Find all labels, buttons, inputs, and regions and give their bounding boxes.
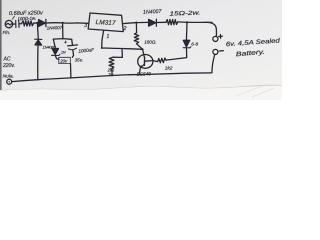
wire bottom rail bbox=[12, 73, 212, 82]
wire shunt-diode branch bbox=[36, 24, 39, 39]
wire bbox=[55, 56, 58, 60]
resistor R1 100ohm bbox=[22, 21, 34, 26]
terminal - bbox=[213, 49, 218, 54]
wire tee bbox=[53, 38, 71, 41]
capacitor C2 1000uF plates bbox=[68, 45, 78, 46]
wire zener branch bbox=[185, 23, 188, 40]
svg-text:1N4007: 1N4007 bbox=[47, 25, 63, 31]
photo left edge bbox=[0, 0, 2, 100]
svg-text:35v.: 35v. bbox=[75, 58, 83, 63]
wire bbox=[19, 23, 21, 25]
wire bbox=[13, 23, 16, 25]
node 20v label box bbox=[59, 57, 71, 63]
transistor Q1 BC548 bbox=[138, 55, 153, 69]
wire bbox=[72, 50, 73, 57]
terminal neutral bbox=[7, 79, 12, 84]
resistor R4 15ohm 2W bbox=[166, 20, 178, 25]
svg-text:1N: 1N bbox=[61, 50, 66, 54]
svg-text:1w.: 1w. bbox=[108, 72, 114, 77]
resistor R2 180ohm vertical bbox=[134, 23, 142, 49]
diode D3 1N4007 bbox=[149, 19, 156, 26]
wire bbox=[166, 49, 187, 61]
svg-text:1: 1 bbox=[106, 34, 109, 40]
wire bbox=[34, 22, 37, 24]
svg-text:LM317: LM317 bbox=[95, 19, 116, 27]
node junction bbox=[36, 22, 38, 24]
svg-text:1N4007: 1N4007 bbox=[43, 46, 57, 50]
wire bbox=[157, 21, 166, 23]
wire cap lead bbox=[71, 39, 74, 45]
node cap polarity plus bbox=[64, 41, 66, 43]
wire bbox=[37, 45, 39, 79]
svg-text:1k2: 1k2 bbox=[165, 65, 173, 70]
paper bottom crease bbox=[0, 85, 282, 90]
wire adj node A bbox=[102, 48, 143, 49]
svg-text:BC548: BC548 bbox=[137, 71, 152, 77]
wire pin1 adj bbox=[102, 31, 104, 48]
node junction bbox=[61, 22, 63, 24]
svg-text:Nula.: Nula. bbox=[3, 74, 14, 80]
node junction bbox=[138, 74, 140, 76]
label R1 value bbox=[12, 16, 14, 20]
wire bbox=[53, 39, 55, 48]
svg-text:15Ω-2w.: 15Ω-2w. bbox=[169, 11, 200, 18]
wire bbox=[111, 68, 113, 75]
node junction bbox=[135, 21, 137, 23]
wire jog to R3 bbox=[113, 49, 123, 57]
wire top rail to + terminal bbox=[207, 22, 216, 36]
svg-text:2: 2 bbox=[123, 26, 127, 32]
resistor R5 1k2 bbox=[153, 58, 166, 63]
AC source G1 bbox=[5, 20, 12, 27]
zener ZD2 6.8v bbox=[183, 40, 189, 47]
svg-text:Fin.: Fin. bbox=[3, 30, 11, 35]
wire bbox=[136, 21, 148, 23]
wire output pin2 bbox=[123, 22, 136, 25]
diode D1 1N4007 bbox=[39, 20, 46, 27]
terminal + bbox=[213, 36, 218, 41]
wire bbox=[178, 21, 212, 24]
wire bbox=[70, 64, 72, 78]
svg-text:180Ω.: 180Ω. bbox=[144, 40, 156, 45]
svg-text:3: 3 bbox=[84, 23, 87, 29]
svg-text:100Ω-1w.: 100Ω-1w. bbox=[17, 16, 36, 22]
wire - terminal to bottom rail bbox=[212, 55, 215, 73]
diode D2 1N4007 shunt bbox=[35, 38, 42, 40]
svg-text:6-8: 6-8 bbox=[191, 42, 198, 47]
node junction bbox=[70, 77, 72, 79]
wire zener/cap branch down bbox=[62, 23, 64, 39]
svg-text:AC: AC bbox=[3, 57, 11, 63]
LM317 box U1 bbox=[88, 13, 123, 32]
paper background bbox=[0, 0, 282, 100]
svg-text:220v.: 220v. bbox=[2, 63, 15, 69]
node junction bbox=[186, 21, 188, 23]
wire bbox=[46, 22, 88, 25]
resistor R3 2k2 bbox=[109, 57, 114, 68]
svg-text:20v: 20v bbox=[59, 58, 68, 63]
zener ZD1 20v bbox=[52, 48, 59, 54]
capacitor C1 0.68uF bbox=[16, 20, 19, 27]
svg-text:1N4007: 1N4007 bbox=[143, 9, 163, 16]
